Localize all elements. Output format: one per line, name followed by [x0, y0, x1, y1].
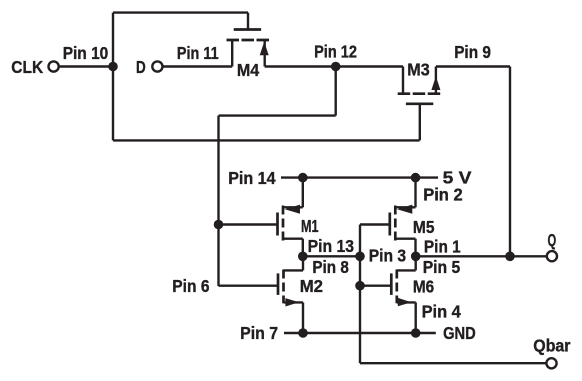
wire M2 gate [219, 285, 279, 287]
svg-text:Pin 5: Pin 5 [423, 257, 461, 277]
wire M6 gate [360, 285, 391, 287]
svg-text:Pin 14: Pin 14 [228, 168, 276, 188]
wire CLK lead [60, 65, 114, 67]
transistor M6 [391, 256, 415, 333]
wire Pin 9 [436, 65, 510, 67]
svg-text:D: D [136, 57, 146, 77]
node central column Q-line junction [355, 251, 365, 261]
wire central column [359, 225, 361, 364]
wire left column to inverter gates [217, 116, 219, 286]
wire GND run [284, 332, 436, 334]
svg-text:Pin 8: Pin 8 [312, 257, 349, 277]
wire Q output [416, 255, 547, 257]
transistor M2 [278, 256, 303, 333]
wire M4 gate lead [247, 13, 249, 30]
transistor M4 [227, 30, 270, 67]
node M6 gate junction [355, 281, 365, 291]
svg-text:Pin 11: Pin 11 [177, 43, 219, 63]
wire CLK column (up to top loop, down to M3 gate run) [112, 13, 114, 141]
svg-text:M4: M4 [237, 60, 260, 80]
node M1 gate junction [214, 220, 224, 230]
node Q feedback junction [505, 251, 515, 261]
node M1 rail junction [298, 173, 308, 183]
wire Qbar output [360, 362, 546, 364]
svg-text:GND: GND [443, 323, 476, 343]
wire M1 gate [219, 223, 278, 225]
node M2 source GND junction [298, 328, 308, 338]
transistor M3 [398, 67, 441, 104]
svg-text:Pin 2: Pin 2 [423, 184, 463, 204]
svg-text:M3: M3 [407, 59, 430, 79]
svg-text:Pin 7: Pin 7 [240, 323, 278, 343]
wire 5V rail [281, 176, 438, 178]
terminal D [152, 61, 162, 71]
svg-text:M2: M2 [300, 276, 324, 296]
wire M5 gate [360, 223, 390, 225]
transistor M5 [390, 178, 416, 257]
wire Pin12 cross run [219, 114, 336, 116]
wire Qbar node to column [303, 255, 360, 257]
terminal Q [547, 251, 557, 261]
wire node Pin12 (M4 to M3) [265, 65, 403, 67]
svg-text:M1: M1 [301, 216, 319, 236]
svg-text:Pin 6: Pin 6 [172, 276, 209, 296]
svg-text:M6: M6 [413, 276, 435, 296]
wire top loop to M4 gate [113, 11, 248, 13]
wire Pin12 drop [335, 67, 337, 116]
svg-text:Qbar: Qbar [533, 335, 570, 355]
svg-text:M5: M5 [413, 217, 435, 237]
svg-text:Pin 12: Pin 12 [314, 42, 357, 62]
svg-text:Pin 9: Pin 9 [454, 42, 491, 62]
node M6 source GND junction [411, 328, 421, 338]
svg-text:Pin 4: Pin 4 [422, 302, 461, 322]
wire M3 gate lead [419, 104, 421, 141]
svg-text:CLK: CLK [11, 57, 43, 77]
wire CLK to M3 gate run [113, 139, 420, 141]
node M5-M6 drain junction [411, 251, 421, 261]
node Pin 12 junction [331, 62, 341, 72]
node CLK junction [108, 62, 118, 72]
wire right feedback column [509, 67, 511, 257]
wire D lead [163, 65, 232, 67]
svg-text:Pin 1: Pin 1 [424, 236, 461, 256]
terminal CLK [49, 61, 59, 71]
svg-text:Pin 13: Pin 13 [308, 236, 355, 256]
transistor M1 [278, 178, 303, 257]
svg-text:Pin 3: Pin 3 [369, 246, 407, 266]
terminal Qbar [546, 358, 556, 368]
node M1-M2 drain junction [298, 251, 308, 261]
node M5 rail junction [411, 173, 421, 183]
svg-text:Pin 10: Pin 10 [63, 43, 109, 63]
svg-text:Q: Q [548, 230, 557, 250]
